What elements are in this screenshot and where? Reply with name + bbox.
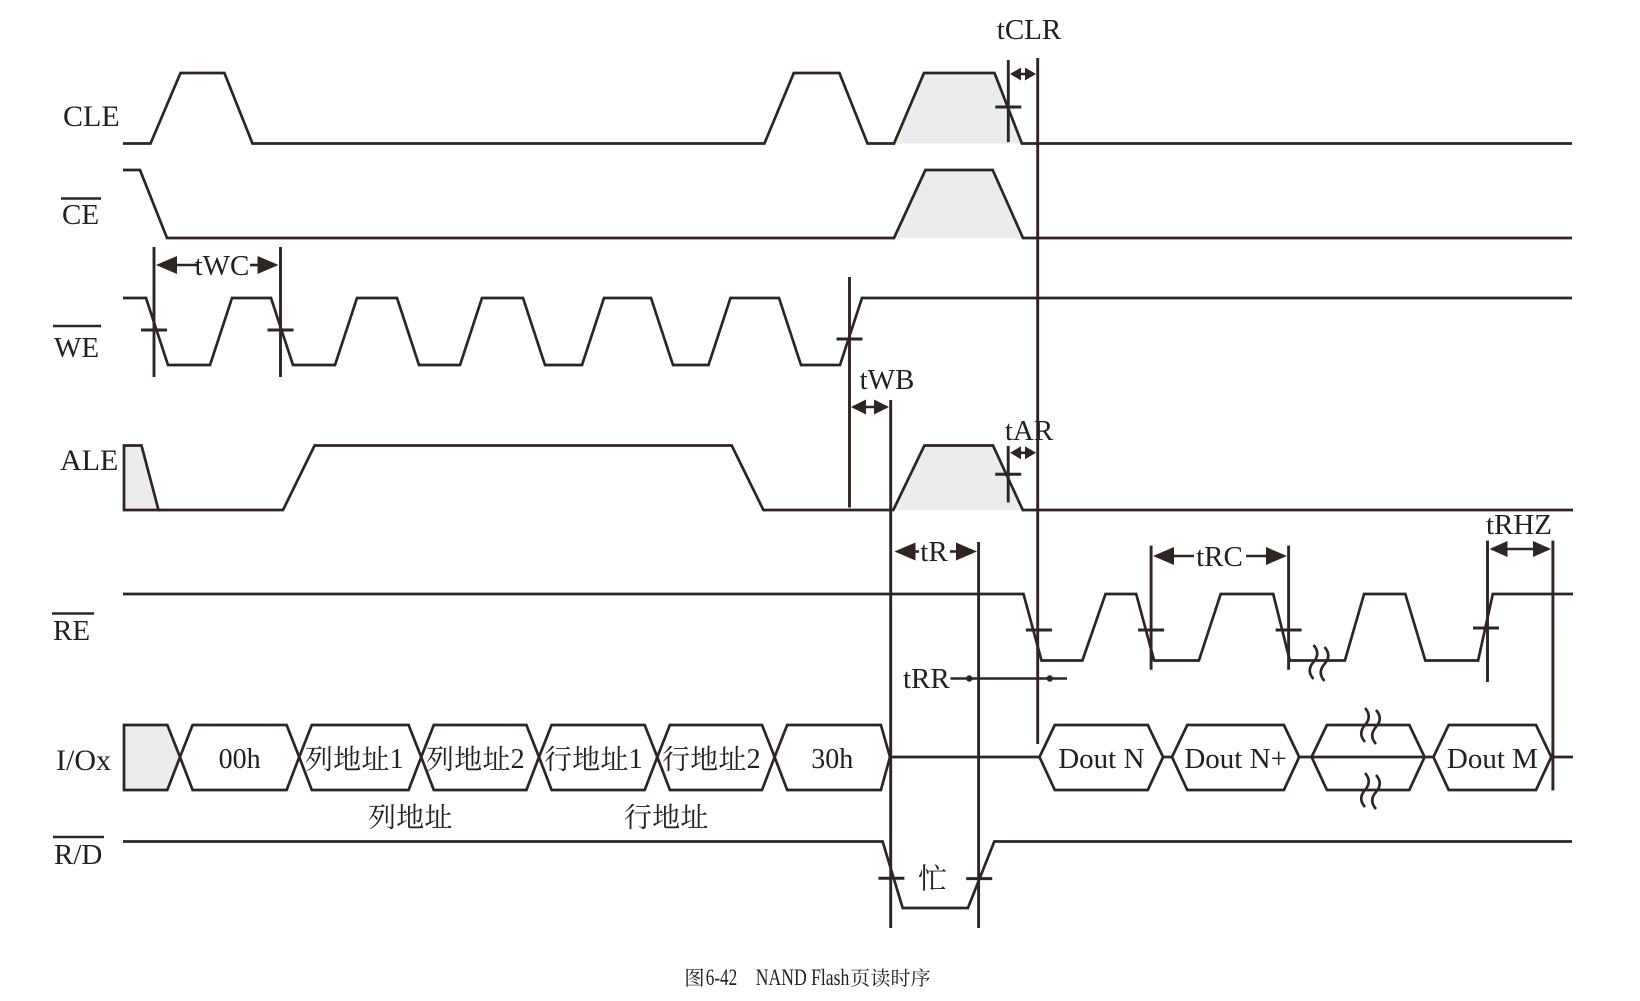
CE label overline — [61, 197, 101, 200]
svg-text:1: 1 — [629, 744, 643, 775]
hexagon 行地址2 — [657, 725, 774, 790]
tRR line with dots — [951, 677, 1068, 680]
I/O connector — [1299, 756, 1311, 759]
tRC bars — [1150, 546, 1153, 670]
tCLR tick — [995, 106, 1021, 109]
CE gray pulse fill — [894, 170, 1023, 238]
RE waveform — [123, 594, 1573, 661]
svg-text:tRHZ: tRHZ — [1486, 509, 1552, 541]
svg-text:RE: RE — [53, 615, 90, 647]
svg-text:00h: 00h — [219, 744, 261, 775]
svg-text:I/Ox: I/Ox — [56, 744, 111, 777]
I/O idle line during busy — [890, 756, 1040, 759]
tWB left bar — [848, 277, 851, 508]
CLE waveform — [123, 73, 1572, 144]
CE waveform — [123, 170, 1572, 238]
R/D waveform — [123, 842, 1572, 909]
R/D label overline — [53, 836, 104, 839]
hexagon 30h — [775, 725, 890, 790]
hexagon Dout M — [1433, 725, 1551, 790]
I/O connector — [1425, 756, 1434, 759]
svg-text:ALE: ALE — [60, 444, 118, 477]
svg-text:CLE: CLE — [63, 100, 120, 133]
tCLR small bar — [1007, 60, 1010, 142]
hexagon 列地址1 — [299, 725, 421, 790]
busy label 忙 — [919, 864, 946, 891]
svg-text:1: 1 — [390, 744, 404, 775]
label 行地址2 — [663, 746, 689, 772]
svg-text:tR: tR — [920, 536, 948, 568]
tRHZ arrow — [1492, 548, 1550, 551]
hexagon 00h — [180, 725, 299, 790]
svg-text:2: 2 — [747, 744, 761, 775]
I/O connector — [1163, 756, 1172, 759]
tAR tick — [995, 473, 1021, 476]
break hexagon squiggles top — [1361, 708, 1369, 742]
svg-text:Dout N: Dout N — [1058, 743, 1144, 775]
WE waveform — [123, 298, 1572, 365]
ALE waveform — [159, 446, 1574, 511]
svg-text:2: 2 — [511, 744, 525, 775]
ALE gray pulse fill — [893, 446, 1023, 511]
caption 图6-42 — [686, 968, 703, 986]
tRC ticks — [1026, 629, 1052, 632]
svg-text:NAND Flash: NAND Flash — [756, 965, 850, 990]
tRHZ tick — [1473, 627, 1499, 630]
label 列地址1 — [306, 746, 331, 771]
tWB tick on WE edge — [837, 338, 863, 341]
long measurement line through tR start — [889, 400, 892, 928]
I/O leading gray shape — [124, 725, 180, 790]
svg-text:CE: CE — [62, 199, 99, 231]
svg-text:Dout M: Dout M — [1447, 743, 1538, 775]
tWC measurement bars — [153, 247, 156, 377]
group label 行地址 — [625, 804, 651, 830]
caption 页读时序 — [851, 969, 869, 987]
svg-text:6-42: 6-42 — [706, 965, 738, 990]
tWC arrows — [175, 264, 197, 267]
tAR arrow — [1012, 451, 1034, 454]
svg-text:tAR: tAR — [1005, 415, 1054, 447]
tCLR arrow — [1012, 73, 1034, 76]
hexagon Dout N — [1040, 725, 1164, 790]
svg-text:Dout N+: Dout N+ — [1184, 743, 1287, 775]
svg-text:tWC: tWC — [195, 250, 250, 282]
svg-text:tWB: tWB — [860, 364, 915, 396]
svg-text:WE: WE — [54, 332, 99, 364]
long measurement line from tCLR down — [1036, 58, 1039, 744]
svg-text:tRC: tRC — [1196, 541, 1243, 573]
R/D edge ticks — [878, 877, 904, 880]
tRC arrows — [1172, 555, 1194, 558]
group label 列地址 — [369, 804, 394, 829]
tR arrows — [914, 550, 920, 553]
WE label overline — [53, 325, 101, 328]
svg-text:30h: 30h — [811, 744, 853, 775]
CLE gray pulse fill — [894, 73, 1022, 144]
RE label overline — [52, 612, 94, 615]
tAR small bar — [1007, 446, 1010, 503]
label 行地址1 — [545, 746, 571, 772]
hexagon Dout N+ — [1172, 725, 1299, 790]
break hexagon — [1312, 725, 1425, 790]
I/O trailing line — [1551, 756, 1573, 759]
hexagon 行地址1 — [539, 725, 657, 790]
label 列地址2 — [427, 746, 452, 771]
break hexagon squiggles bottom — [1361, 773, 1369, 807]
svg-text:tCLR: tCLR — [997, 14, 1062, 46]
svg-text:tRR: tRR — [903, 663, 950, 695]
tR right bar — [977, 542, 980, 928]
svg-text:R/D: R/D — [54, 839, 102, 871]
ALE left gray fill — [124, 446, 159, 511]
hexagon 列地址2 — [421, 725, 539, 790]
tWC edge ticks — [141, 329, 167, 332]
RE break marks — [1310, 645, 1318, 679]
tWB arrow — [853, 406, 887, 409]
tRHZ bars — [1486, 541, 1489, 682]
